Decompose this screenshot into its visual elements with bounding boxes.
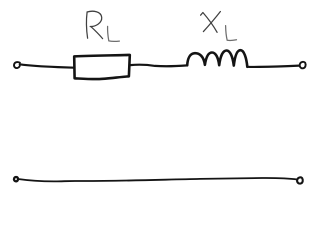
label X (of X_L) [201,12,221,33]
bottom wire [18,178,297,181]
wire resistor to inductor [130,65,187,67]
label L subscript (of R_L) [108,26,120,41]
terminal T3 bottom-left [14,177,18,181]
label R (of R_L) [86,11,102,38]
terminal T1 top-left [14,62,20,68]
label L subscript (of X_L) [226,26,237,41]
terminal T4 bottom-right [297,177,303,183]
wire inductor to T2 [247,66,299,67]
resistor R_L body [74,55,130,79]
terminal T2 top-right [300,62,306,69]
inductor X_L coil [187,50,247,67]
wire T1 to resistor [20,64,74,67]
